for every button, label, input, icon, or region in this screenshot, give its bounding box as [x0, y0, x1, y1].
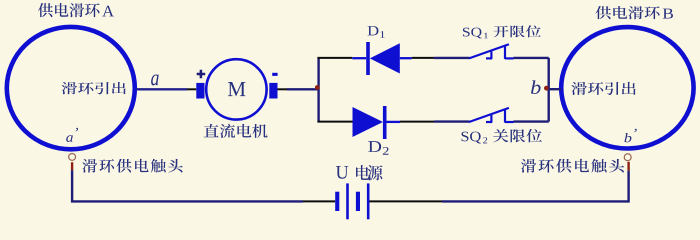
label 滑环供电触头 (left) — [82, 159, 183, 173]
node label a' — [66, 128, 78, 142]
motor letter M — [228, 82, 245, 96]
label U 电源 — [336, 165, 383, 180]
bridge right vertical wire — [548, 58, 550, 122]
wire: top branch corner to D1 anode — [317, 57, 352, 59]
diode D2 (pointing right, cathode bar right) — [353, 107, 383, 137]
wire: slip ring A to motor (black stub) — [187, 88, 196, 90]
slip ring A circle — [7, 27, 135, 149]
node label b' — [624, 129, 636, 143]
label 滑环引出 (left) — [62, 82, 126, 94]
label 滑环供电触头 (right) — [521, 159, 624, 173]
junction dot right (node b) — [544, 86, 549, 91]
wire: bottom to battery negative (black) — [303, 200, 335, 202]
limit switch SQ2 — [469, 108, 514, 123]
battery U: cell 1 positive plate — [346, 183, 349, 219]
wire: motor minus brush stub (black) — [278, 88, 288, 90]
wire SQ2 to right vertical — [514, 120, 549, 122]
red stub below b-prime — [627, 162, 629, 171]
battery U: cell 1 negative plate — [335, 192, 339, 211]
battery U: cell 2 negative plate — [356, 192, 360, 211]
node label a — [151, 75, 159, 86]
wire: bottom branch corner to D2 anode — [317, 121, 352, 123]
plus sign at left brush — [197, 70, 206, 79]
wire SQ1 to right vertical — [514, 57, 549, 59]
minus sign at right brush — [272, 73, 277, 76]
node label b — [531, 80, 541, 94]
limit switch SQ1 — [469, 44, 514, 59]
motor brush left — [196, 83, 204, 99]
wire: D2 to SQ2 (navy) — [434, 120, 470, 122]
label D2 — [368, 141, 388, 155]
junction dot left — [315, 85, 320, 90]
wire: D1 to SQ1 (black) — [412, 57, 434, 59]
wire: bottom along and up to b-prime contact — [442, 171, 629, 202]
motor M — [206, 59, 266, 119]
motor brush right — [269, 83, 277, 99]
wire: a-prime contact down and along bottom — [72, 170, 303, 201]
bridge left vertical wire — [317, 58, 319, 122]
wire: D1 to SQ1 (navy) — [434, 57, 470, 59]
label 滑环引出 (right) — [571, 82, 635, 95]
label SQ2 关限位 — [461, 129, 541, 144]
diode D1 (cathode bar left, pointing left) — [366, 42, 370, 75]
wire: bridge to slip ring B — [549, 88, 561, 90]
wire: D2 cathode lead — [386, 121, 400, 123]
label D1 — [368, 26, 385, 38]
label 供电滑环A — [38, 3, 114, 17]
red stub below a-prime — [71, 162, 73, 170]
wire: battery positive to bottom right (black) — [370, 200, 443, 202]
wire: D1 cathode lead — [352, 57, 366, 59]
slip ring B circle — [561, 27, 693, 148]
battery U: cell 2 positive plate — [367, 183, 370, 219]
label 供电滑环B — [595, 6, 673, 19]
terminal ring a-prime — [69, 153, 76, 160]
label 直流电机 — [204, 124, 268, 138]
wire: D1 anode lead — [400, 57, 412, 59]
wire: motor to diode bridge node — [287, 88, 320, 90]
wire: slip ring A to motor, node a (blue run) — [136, 88, 187, 90]
label SQ1 开限位 — [463, 25, 541, 38]
terminal ring b-prime — [624, 154, 631, 161]
wire: D2 to SQ2 (black) — [400, 121, 434, 123]
